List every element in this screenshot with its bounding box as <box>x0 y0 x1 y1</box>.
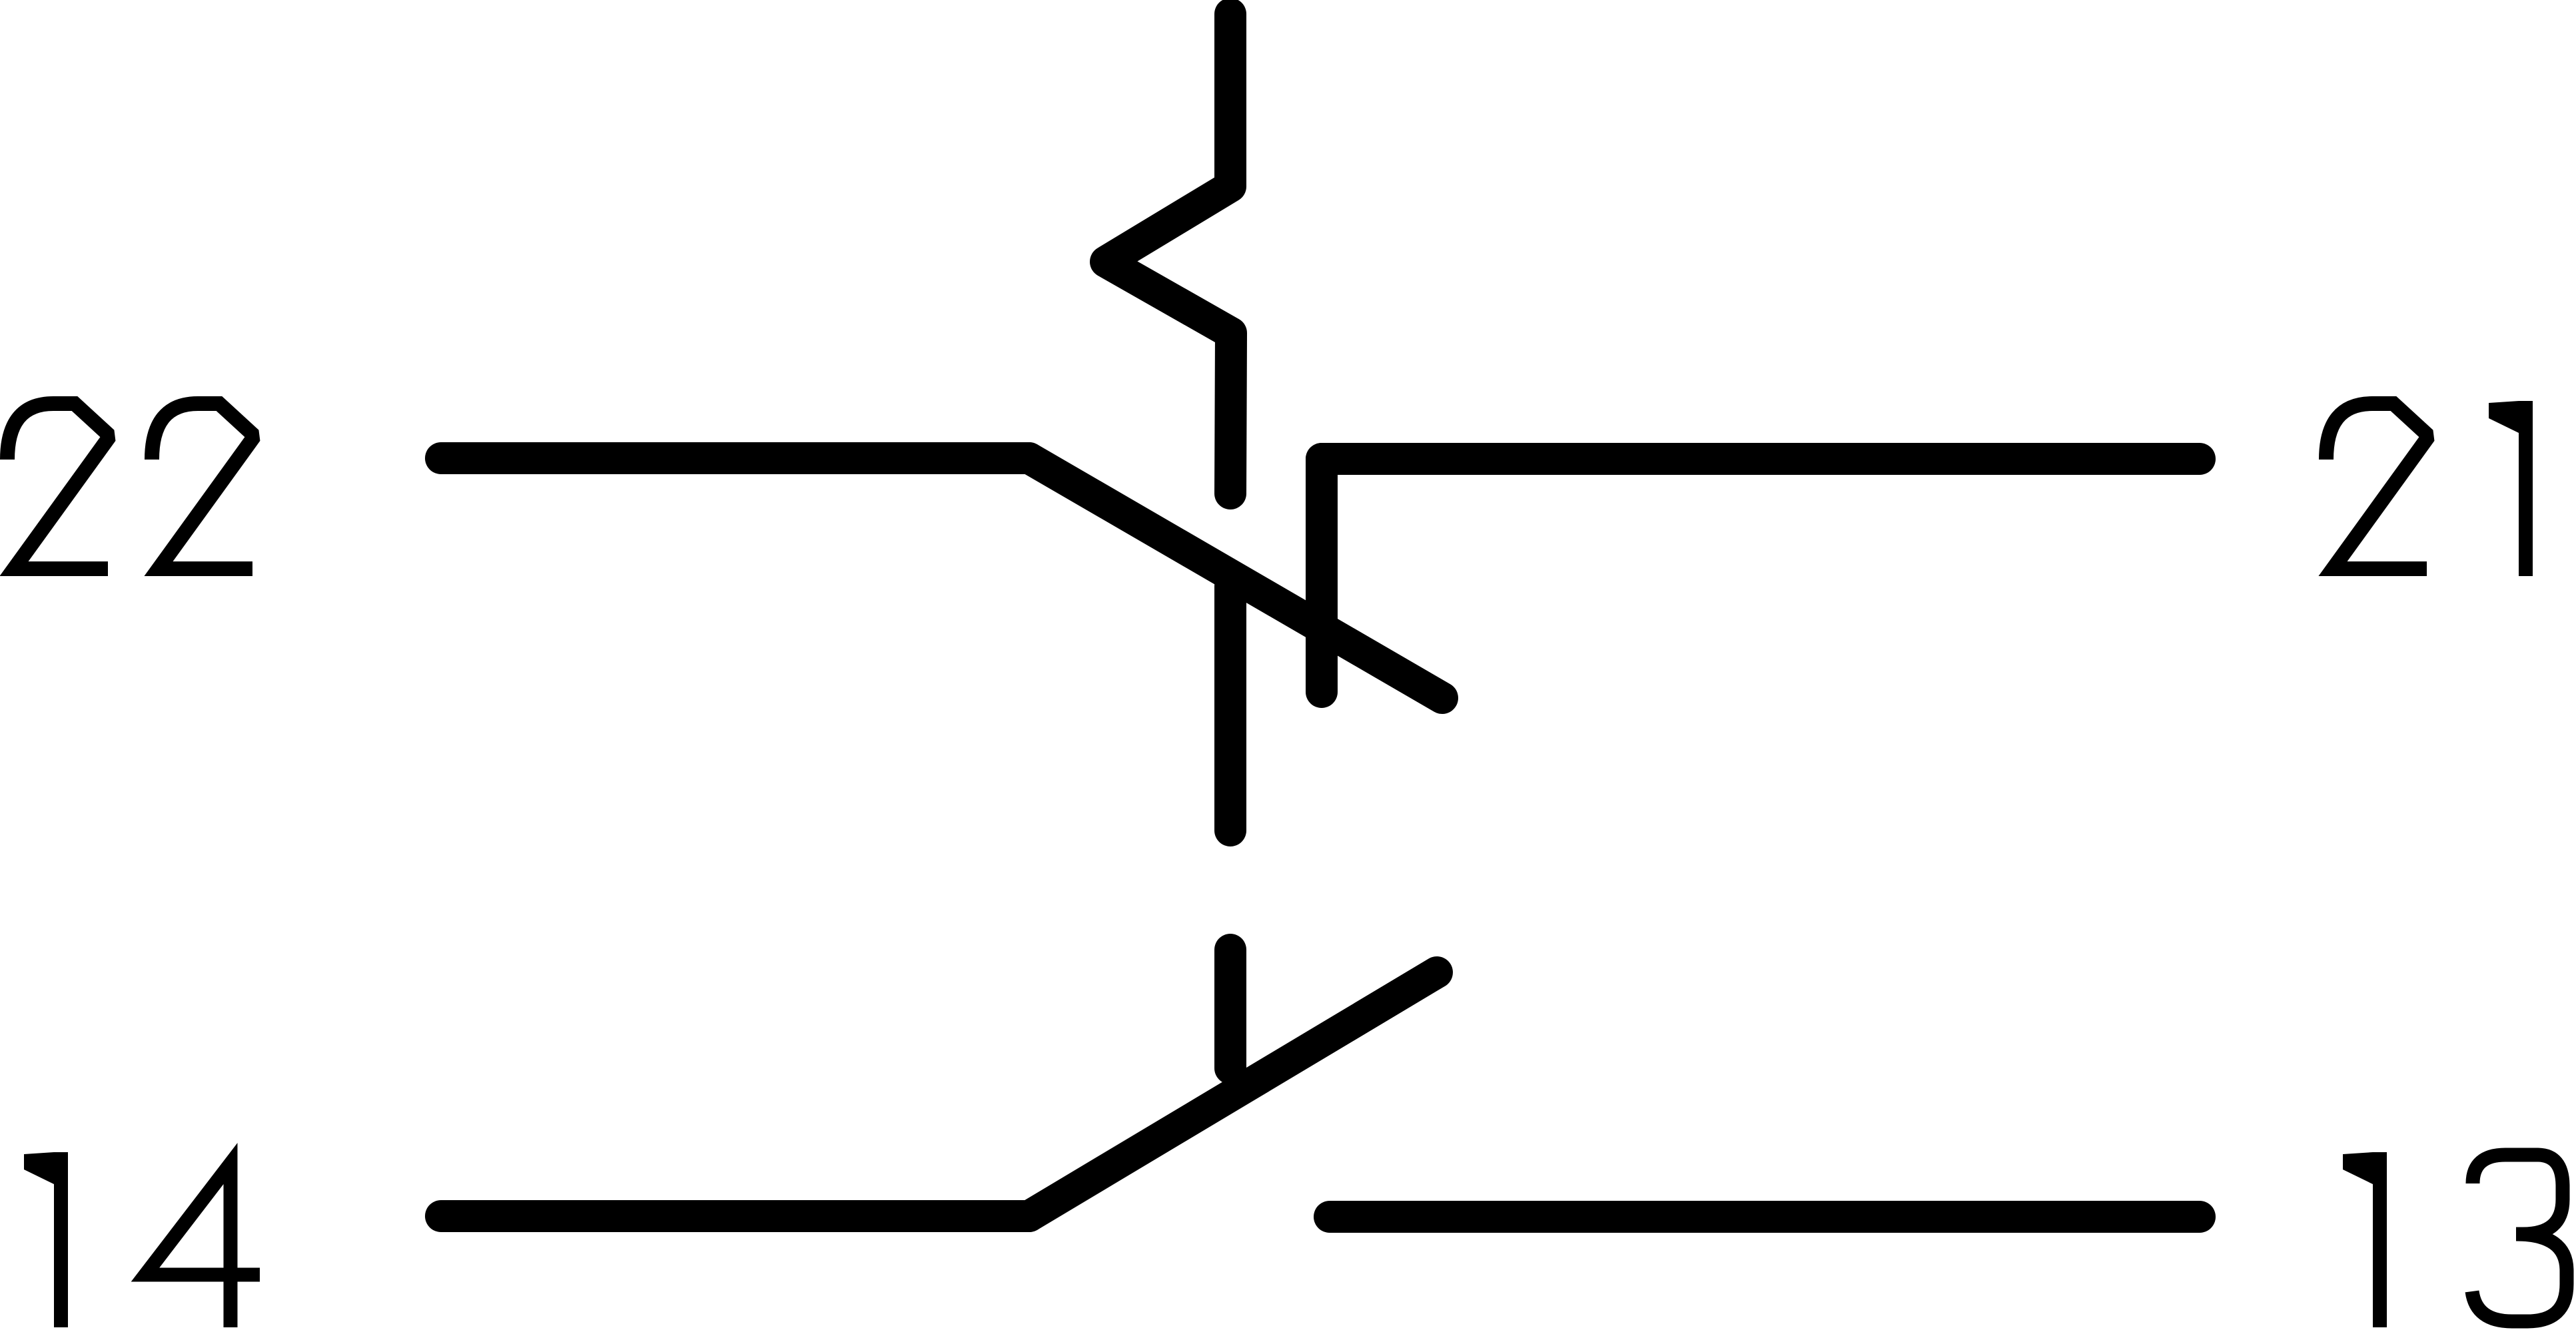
contact stop: NC fixed contact post <box>1306 459 1338 692</box>
wire: terminal 14 lead <box>441 1200 1029 1232</box>
wire: terminal 22 lead <box>441 442 1029 474</box>
contact arm: NC movable contact (21-22) <box>1029 458 1442 698</box>
wire: terminal 21 lead <box>1322 443 2200 475</box>
contact arm: NO movable contact (13-14) <box>1029 972 1437 1216</box>
label: terminal 22 <box>7 404 252 569</box>
wire: actuator stem with break (zigzag) <box>1106 14 1231 494</box>
label: terminal 21 <box>2326 401 2533 576</box>
wire: terminal 13 lead <box>1330 1201 2200 1233</box>
label: terminal 14 <box>24 1152 260 1327</box>
mechanical link: dash upper <box>1214 586 1246 831</box>
label: terminal 13 <box>2343 1152 2567 1327</box>
mechanical link: dash lower <box>1214 950 1246 1068</box>
